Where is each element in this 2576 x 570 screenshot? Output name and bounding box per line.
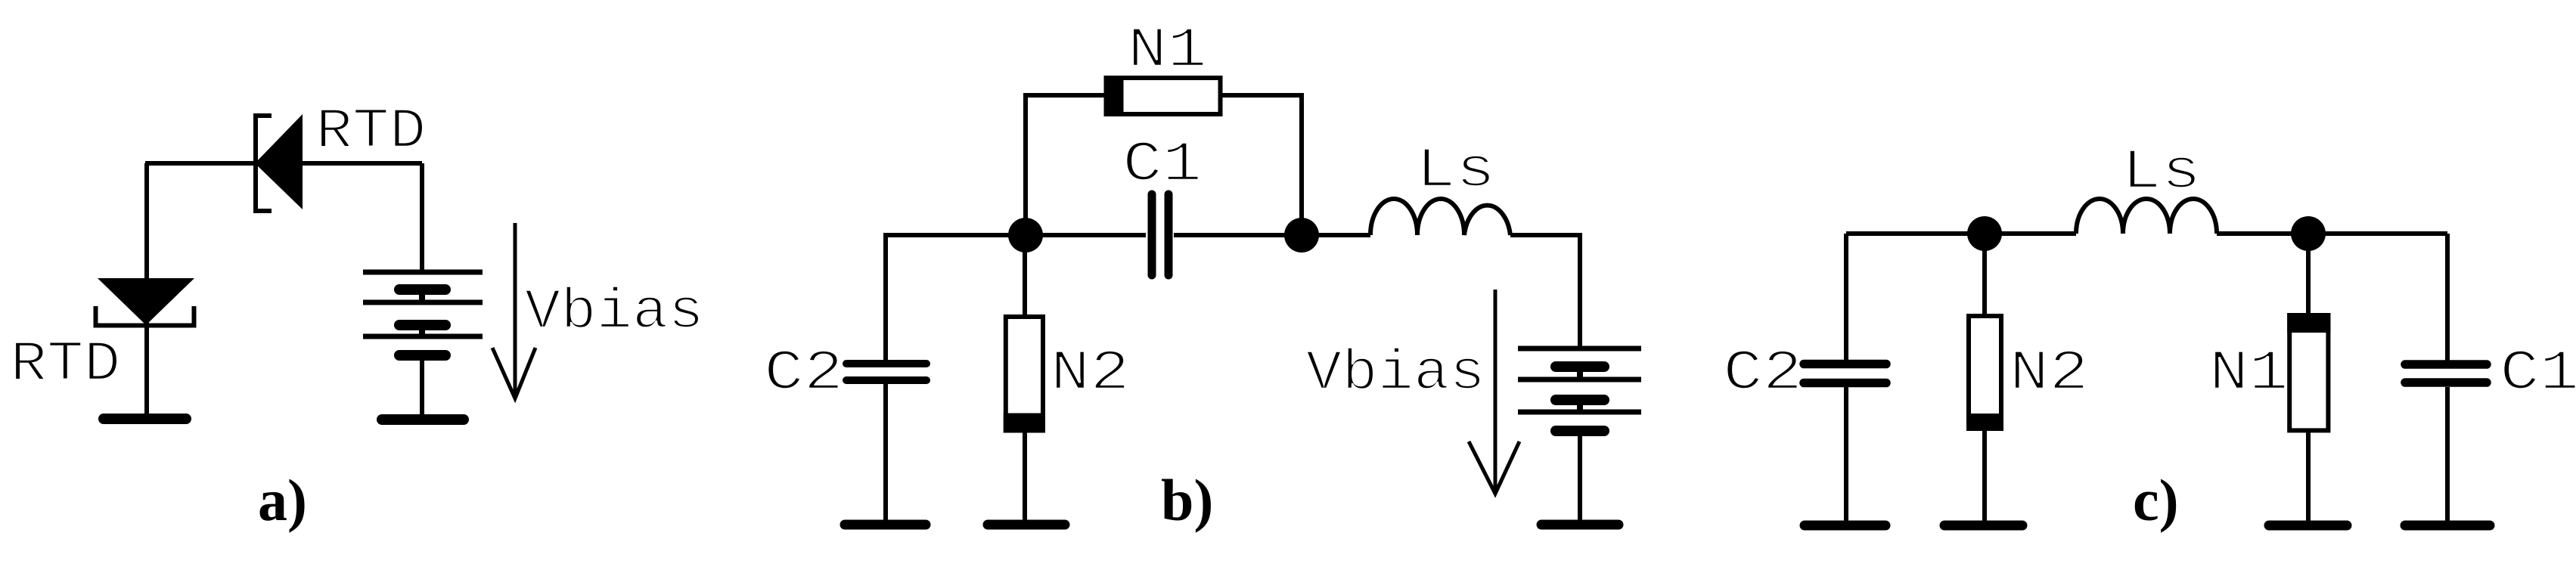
svg-text:N2: N2 (1051, 342, 1130, 406)
svg-text:Vbias: Vbias (1306, 342, 1485, 406)
svg-text:N1: N1 (1128, 19, 1207, 83)
svg-text:RTD: RTD (315, 100, 426, 164)
svg-text:N1: N1 (2209, 342, 2289, 406)
svg-text:c): c) (2133, 467, 2179, 533)
svg-text:RTD: RTD (10, 333, 120, 397)
svg-text:Ls: Ls (1416, 139, 1495, 203)
svg-text:Vbias: Vbias (525, 280, 704, 345)
svg-text:C2: C2 (764, 342, 843, 406)
svg-text:C1: C1 (1122, 133, 1202, 197)
svg-text:a): a) (258, 467, 307, 533)
svg-text:N2: N2 (2010, 342, 2089, 406)
svg-text:C2: C2 (1723, 342, 1802, 406)
svg-text:b): b) (1161, 467, 1213, 533)
svg-text:C1: C1 (2500, 342, 2576, 406)
svg-text:Ls: Ls (2121, 141, 2201, 205)
